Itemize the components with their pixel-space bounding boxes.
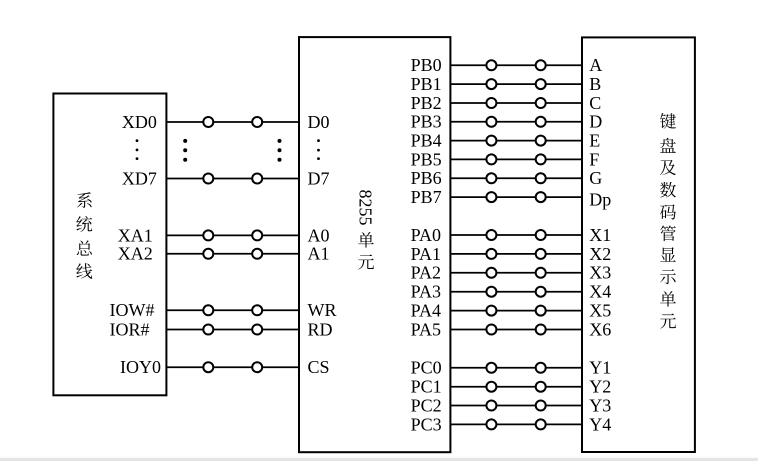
svg-text:X3: X3 [589, 263, 611, 283]
svg-text:X4: X4 [589, 282, 611, 302]
svg-text:PB3: PB3 [411, 112, 442, 132]
svg-text:XD7: XD7 [122, 168, 157, 188]
svg-text:PA2: PA2 [411, 263, 441, 283]
connector circles on PA5 wire [486, 325, 545, 335]
box U3: keyboard and LED display unit 键盘及数码管显示单元 [582, 37, 695, 452]
wire PA0 to X1 [450, 234, 582, 236]
svg-text:CS: CS [308, 357, 330, 377]
vertical label 8255单元 [356, 190, 376, 270]
wire PB7 to Dp [450, 196, 582, 198]
connector circles on PC1 wire [486, 382, 545, 392]
wire PC0 to Y1 [450, 367, 582, 369]
wire PA2 to X3 [450, 272, 582, 274]
svg-text:A0: A0 [308, 225, 330, 245]
svg-text:PB4: PB4 [411, 131, 442, 151]
wire PB5 to F [450, 158, 582, 160]
connector circles on PB3 wire [486, 117, 545, 127]
svg-text:E: E [589, 131, 600, 151]
connector circles on PB1 wire [486, 79, 545, 89]
svg-text:Y1: Y1 [589, 358, 611, 378]
svg-text:B: B [589, 74, 601, 94]
svg-text:D7: D7 [308, 168, 330, 188]
svg-text:D0: D0 [308, 112, 330, 132]
ellipsis dots in 8255 box (D0..D7) [317, 139, 320, 160]
connector circles on IOW# wire [203, 305, 262, 315]
connector circles on XD7 wire [203, 174, 262, 184]
wire IOW# to WR [166, 309, 299, 311]
svg-text:PA3: PA3 [411, 282, 441, 302]
connector circles on PA3 wire [486, 287, 545, 297]
svg-text:Y4: Y4 [589, 414, 611, 434]
connector circles on PB0 wire [486, 60, 545, 70]
svg-text:PC1: PC1 [411, 377, 442, 397]
svg-text:XA2: XA2 [118, 244, 153, 264]
svg-text:X2: X2 [589, 244, 611, 264]
svg-text:PC3: PC3 [411, 414, 442, 434]
svg-text:PB6: PB6 [411, 168, 442, 188]
box U1: system bus unit 系统总线 [53, 94, 166, 396]
connector circles on PA1 wire [486, 249, 545, 259]
svg-text:X1: X1 [589, 225, 611, 245]
svg-text:XD0: XD0 [122, 112, 157, 132]
connector circles on XD0 wire [203, 117, 262, 127]
connector circles on PB2 wire [486, 98, 545, 108]
svg-text:X6: X6 [589, 319, 611, 339]
wire PC2 to Y3 [450, 405, 582, 407]
wire XA1 to A0 [166, 234, 299, 236]
wire PB0 to A [450, 64, 582, 66]
svg-text:D: D [589, 112, 602, 132]
wire XD7 to D7 [166, 178, 299, 180]
box U2: 8255 unit 8255单元 [299, 37, 450, 452]
svg-text:PA1: PA1 [411, 244, 441, 264]
connector circles on IOY0 wire [203, 362, 262, 372]
wire IOY0 to CS [166, 366, 299, 368]
connector circles on PC3 wire [486, 419, 545, 429]
vertical label 键盘及数码管显示单元 [660, 113, 676, 329]
connector circles on XA2 wire [203, 249, 262, 259]
connector circles on PB4 wire [486, 136, 545, 146]
svg-text:A: A [589, 55, 602, 75]
connector circles on PC0 wire [486, 363, 545, 373]
svg-text:G: G [589, 168, 602, 188]
connector circles on PB5 wire [486, 154, 545, 164]
svg-text:X5: X5 [589, 301, 611, 321]
svg-text:Y2: Y2 [589, 377, 611, 397]
wire PA1 to X2 [450, 253, 582, 255]
wire PC3 to Y4 [450, 423, 582, 425]
svg-text:XA1: XA1 [118, 225, 153, 245]
connector circles on PA4 wire [486, 306, 545, 316]
connector circles on IOR# wire [203, 325, 262, 335]
svg-text:IOY0: IOY0 [120, 357, 161, 377]
svg-text:PA5: PA5 [411, 319, 441, 339]
wire PC1 to Y2 [450, 386, 582, 388]
wire XD0 to D0 [166, 121, 299, 123]
wire PB3 to D [450, 121, 582, 123]
connector circles on PA2 wire [486, 268, 545, 278]
svg-text:WR: WR [308, 300, 337, 320]
connector circles on PB6 wire [486, 173, 545, 183]
svg-text:PB1: PB1 [411, 74, 442, 94]
svg-text:IOR#: IOR# [110, 319, 150, 339]
svg-text:Y3: Y3 [589, 395, 611, 415]
svg-text:PB2: PB2 [411, 93, 442, 113]
wire PA4 to X5 [450, 310, 582, 312]
wire PB1 to B [450, 83, 582, 85]
wire PA5 to X6 [450, 329, 582, 331]
ellipsis dots in system bus box (XD0..XD7) [136, 139, 139, 160]
wire PA3 to X4 [450, 291, 582, 293]
svg-text:PC2: PC2 [411, 395, 442, 415]
svg-text:PB5: PB5 [411, 149, 442, 169]
wire PB2 to C [450, 102, 582, 104]
svg-text:PB7: PB7 [411, 187, 442, 207]
svg-text:RD: RD [308, 319, 333, 339]
svg-text:8255: 8255 [356, 190, 376, 226]
wire PB6 to G [450, 177, 582, 179]
connector circles on PC2 wire [486, 401, 545, 411]
svg-text:PC0: PC0 [411, 358, 442, 378]
connector circles on PB7 wire [486, 192, 545, 202]
ellipsis dots on data bus wires (left) [183, 139, 187, 162]
svg-text:Dp: Dp [589, 189, 611, 209]
vertical label 系统总线 [76, 192, 92, 279]
wire PB4 to E [450, 140, 582, 142]
page edge shadow line (document bottom) [0, 458, 758, 461]
connector circles on PA0 wire [486, 230, 545, 240]
ellipsis dots on data bus wires (right) [278, 139, 282, 162]
svg-text:PA0: PA0 [411, 225, 441, 245]
svg-text:A1: A1 [308, 244, 330, 264]
svg-text:C: C [589, 93, 601, 113]
wire IOR# to RD [166, 329, 299, 331]
svg-text:PA4: PA4 [411, 301, 441, 321]
svg-text:IOW#: IOW# [110, 300, 155, 320]
svg-text:PB0: PB0 [411, 55, 442, 75]
svg-text:F: F [589, 149, 599, 169]
wire XA2 to A1 [166, 253, 299, 255]
connector circles on XA1 wire [203, 230, 262, 240]
